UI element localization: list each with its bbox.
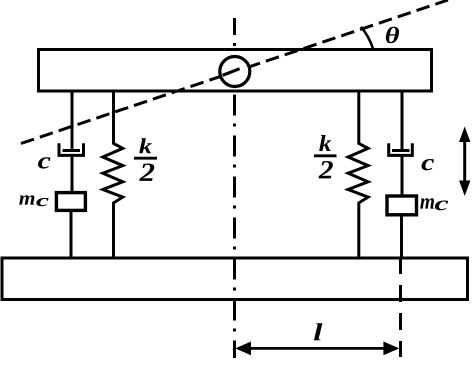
label k/2 right: 2 [319, 161, 333, 178]
label k/2 left: fraction bar [134, 157, 157, 160]
right motion double arrow shaft [463, 138, 466, 184]
label l [314, 323, 322, 340]
label k/2 right: fraction bar [314, 154, 337, 157]
centerline lower (dash-dot) [233, 95, 236, 359]
label m_c left [19, 195, 34, 204]
right mass rod to base [400, 215, 403, 259]
left mass block m_c [56, 193, 85, 211]
right motion arrow top head [459, 127, 470, 143]
base (ground block) [2, 258, 468, 300]
angle arc [361, 27, 373, 49]
angle label theta [386, 27, 399, 44]
right damper cup [389, 143, 413, 155]
label m_c right [420, 198, 434, 208]
top beam (sprung bar) [39, 50, 432, 92]
left mass rod to base [70, 211, 73, 259]
dimension arrowhead right [383, 341, 399, 355]
label k/2 left: 2 [139, 164, 154, 181]
label c left [38, 157, 50, 168]
label c right [421, 159, 433, 170]
right dashed vertical reference line [399, 257, 402, 357]
left damper rod lower [71, 155, 74, 192]
right damper piston [392, 149, 410, 152]
left damper rod upper [71, 91, 74, 151]
pivot circle [220, 57, 250, 87]
label k/2 right: k [319, 135, 331, 151]
dimension line l shaft [238, 347, 396, 350]
right damper rod upper [401, 91, 404, 151]
label k/2 left: k [139, 138, 152, 153]
left damper cup [59, 143, 84, 155]
left damper piston [63, 149, 81, 152]
right motion arrow bottom head [459, 181, 470, 197]
right spring k/2 [348, 91, 368, 260]
right damper rod lower [401, 155, 404, 196]
dimension arrowhead left [235, 342, 251, 356]
inclination dashed line [21, 0, 448, 144]
right mass block m_c [387, 196, 417, 215]
centerline upper (dash-dot) [233, 18, 236, 47]
left spring k/2 [103, 91, 123, 260]
inclination line dash through pivot [223, 69, 240, 76]
